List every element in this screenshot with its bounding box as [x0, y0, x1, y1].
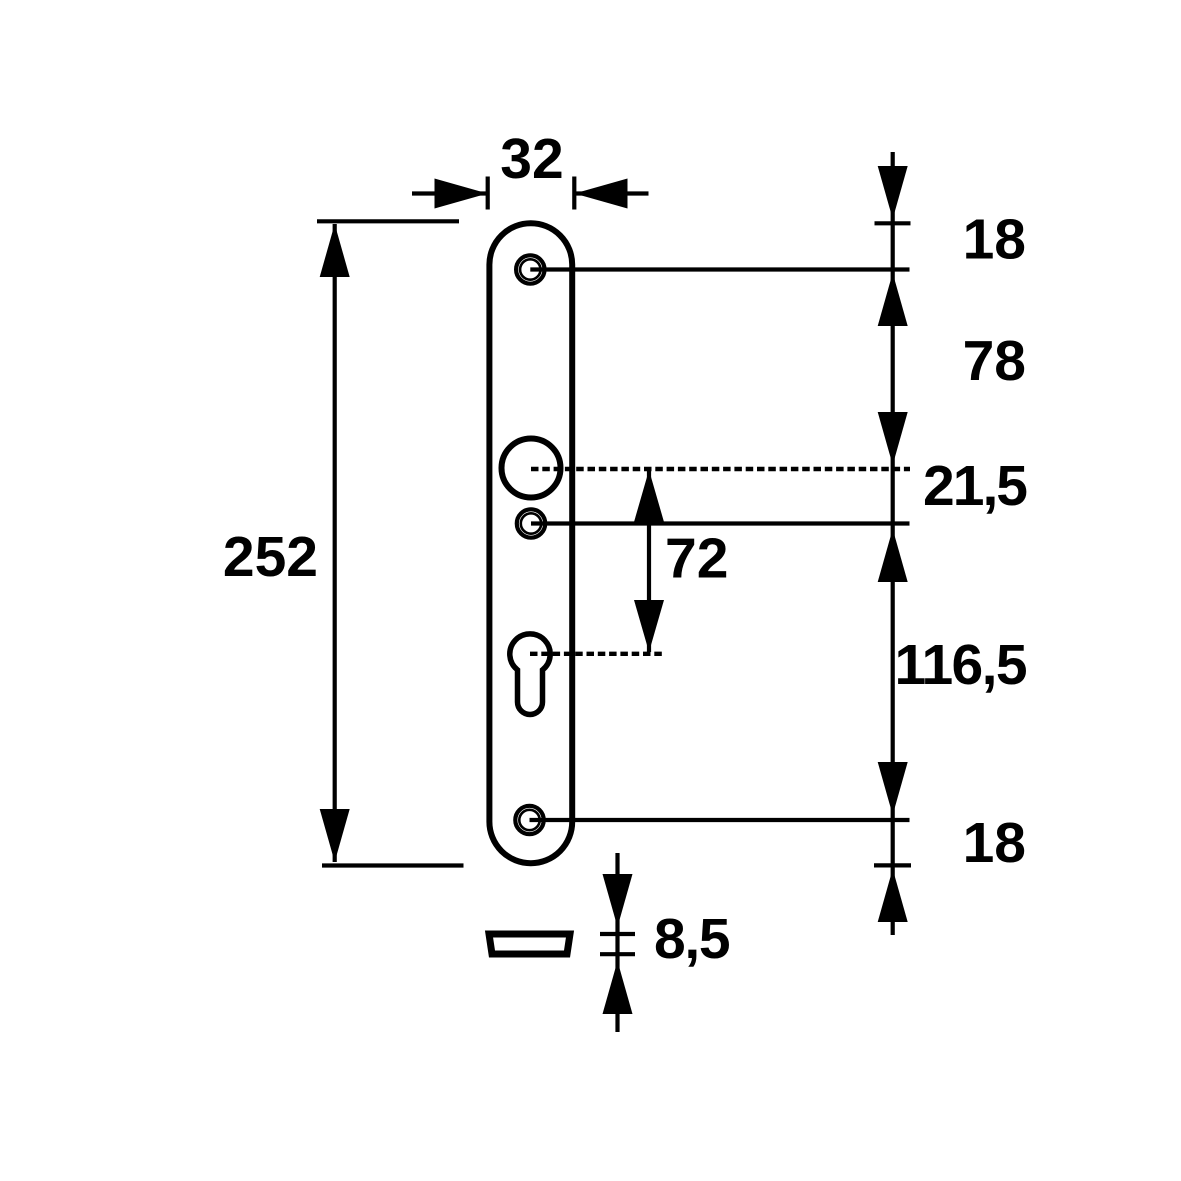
label 18 bottom [963, 811, 1026, 875]
dimension 8,5: thickness dimension line [600, 853, 635, 1032]
dimension 32: top width dimension line [412, 177, 649, 210]
arrow up to plate bottom (18 lower) [878, 869, 908, 922]
svg-text:78: 78 [963, 329, 1026, 393]
arrow up to top screw line (18 upper / 78 shared) [878, 273, 908, 326]
leader line from top screw [530, 267, 909, 271]
dimension 72: handle hole to keyhole [634, 470, 664, 652]
svg-text:72: 72 [665, 527, 728, 591]
label 18 top [963, 207, 1026, 271]
label 8,5 [654, 907, 730, 971]
leader line from middle screw [531, 521, 910, 525]
side view profile (8,5 thickness) [489, 934, 570, 954]
euro profile cylinder keyhole [510, 634, 550, 715]
dimension 252: left overall height [317, 221, 464, 865]
svg-text:18: 18 [963, 811, 1026, 875]
arrow up to middle screw line (21,5 / 116,5 shared) [878, 529, 908, 582]
svg-text:8,5: 8,5 [654, 907, 730, 971]
handle hole (large circle) [502, 439, 561, 498]
right tick at plate top [875, 221, 911, 225]
dashed centerline of handle hole [531, 467, 910, 471]
right tick at plate bottom [874, 863, 911, 867]
arrow down to plate top (18 upper) [878, 166, 908, 219]
svg-text:116,5: 116,5 [895, 633, 1027, 697]
label 116,5 [895, 633, 1027, 697]
svg-text:252: 252 [223, 525, 318, 589]
screw hole middle [517, 509, 545, 537]
label 21,5 [923, 454, 1027, 518]
label 78 [963, 329, 1026, 393]
screw hole bottom [515, 806, 543, 834]
label 72 [665, 527, 728, 591]
right dimension chain main line [891, 152, 895, 935]
svg-text:32: 32 [500, 127, 563, 191]
svg-text:21,5: 21,5 [923, 454, 1027, 518]
arrow down to handle centerline (78 / 21,5 shared) [878, 412, 908, 465]
label 32 [500, 127, 563, 191]
plate outline (front view of backplate) [489, 223, 572, 863]
screw hole top [516, 255, 544, 283]
dashed centerline of keyhole [530, 652, 662, 656]
label 252 [223, 525, 318, 589]
arrow down to bottom screw line (116,5 / 18 shared) [878, 762, 908, 815]
svg-text:18: 18 [963, 207, 1026, 271]
leader line from bottom screw [530, 818, 910, 822]
